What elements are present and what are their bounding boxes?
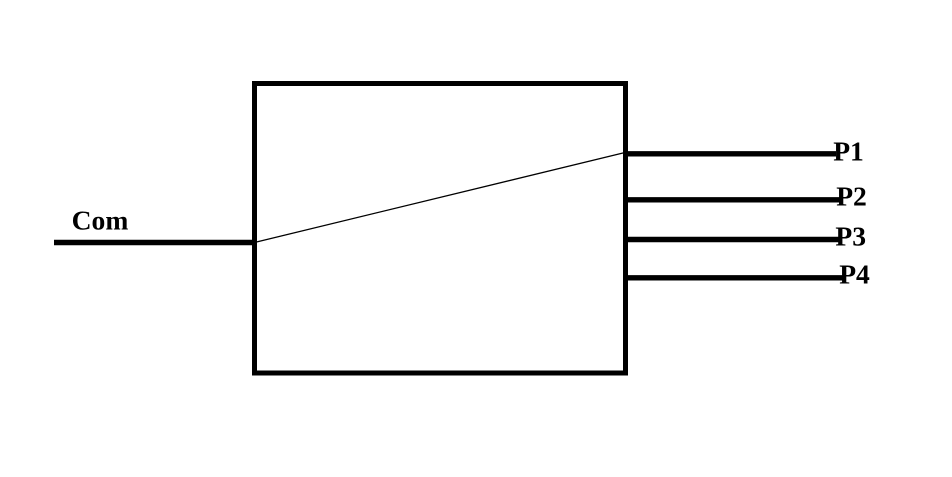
wire Com lead bbox=[54, 240, 257, 246]
svg-text:P2: P2 bbox=[836, 180, 867, 211]
svg-text:Com: Com bbox=[72, 204, 129, 235]
switch body box bbox=[255, 84, 626, 374]
svg-text:P3: P3 bbox=[835, 220, 866, 251]
wire P1 lead bbox=[623, 151, 836, 156]
svg-text:P1: P1 bbox=[833, 136, 864, 167]
wire P2 lead bbox=[623, 197, 840, 202]
wire wiper (selector position to P1) bbox=[257, 153, 625, 242]
wire P4 lead bbox=[623, 275, 844, 280]
svg-text:P4: P4 bbox=[839, 259, 870, 290]
wire P3 lead bbox=[623, 237, 840, 242]
